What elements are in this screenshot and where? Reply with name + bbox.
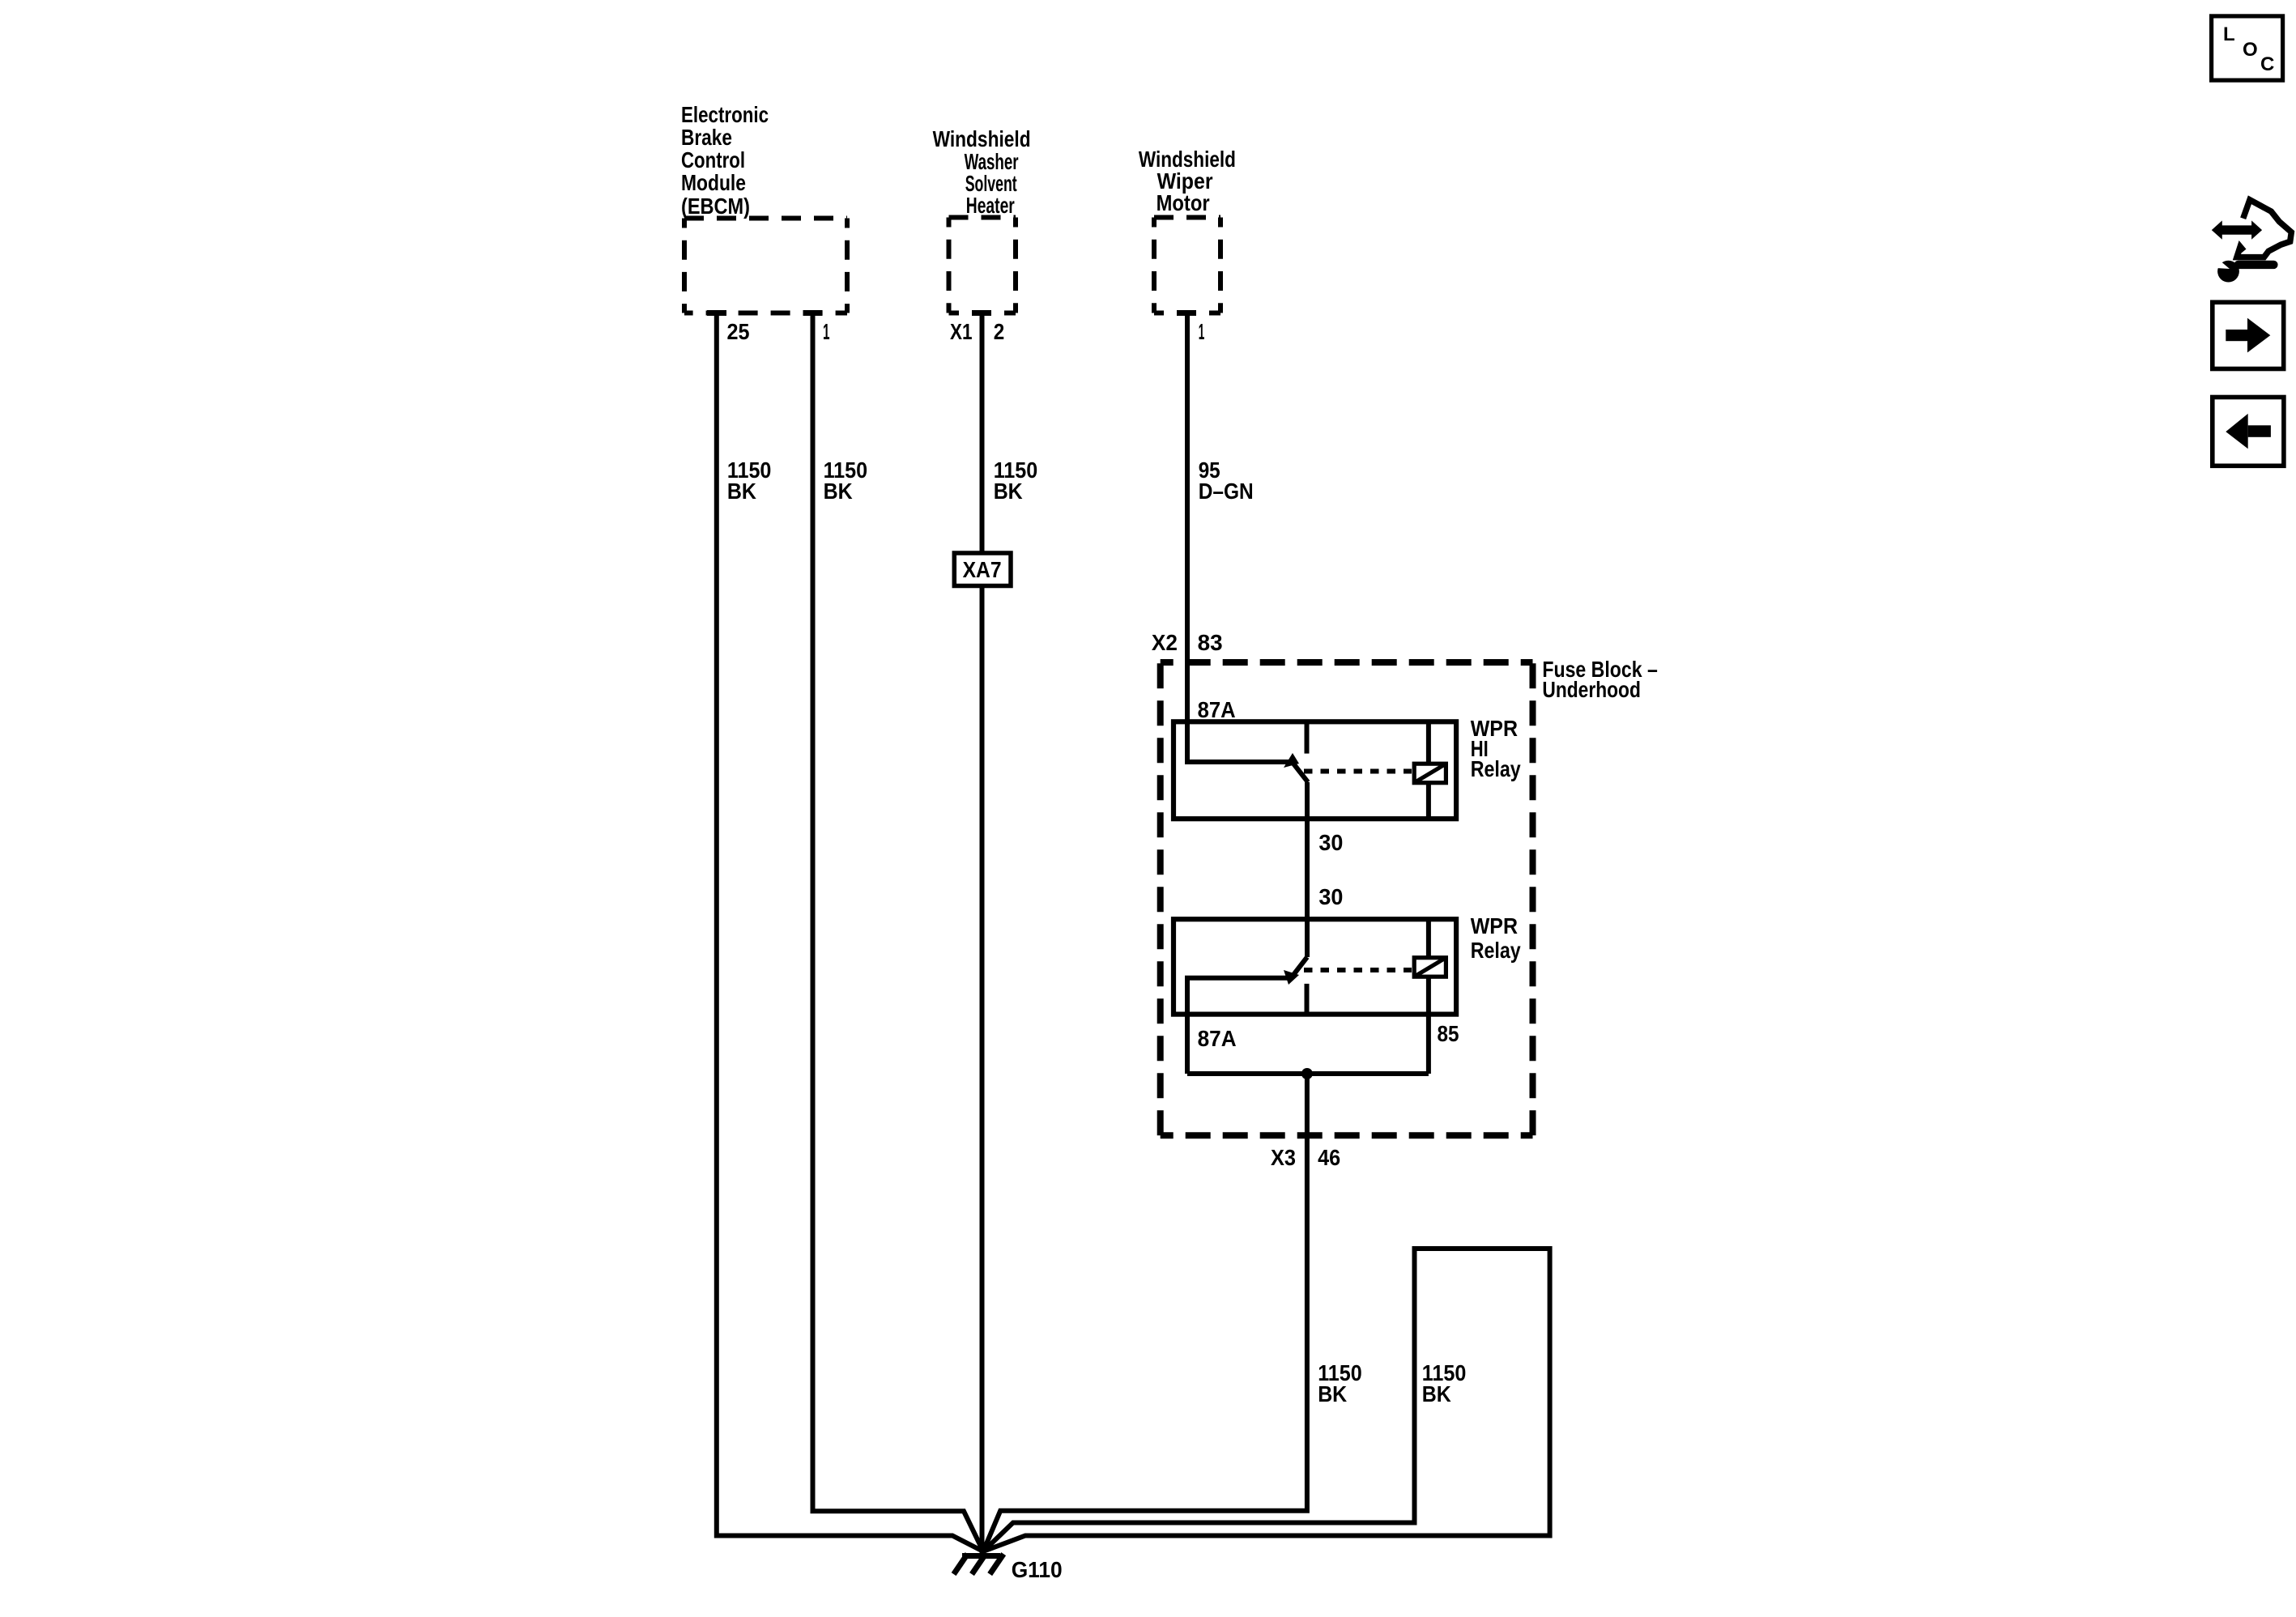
wire label 1150 BK (X3 wire) xyxy=(1318,1360,1362,1406)
svg-text:30: 30 xyxy=(1318,884,1343,909)
svg-text:87A: 87A xyxy=(1198,697,1236,722)
wire label 1150 BK (loop wire) xyxy=(1422,1360,1467,1406)
svg-text:87A: 87A xyxy=(1198,1026,1237,1051)
icon back arrow box xyxy=(2213,398,2284,466)
svg-text:BK: BK xyxy=(824,479,853,504)
wire label 1150 BK (washer wire) xyxy=(994,457,1038,504)
svg-text:Relay: Relay xyxy=(1471,938,1521,963)
icon vehicle with double arrow and wrench xyxy=(2212,200,2292,283)
wire 1150 BK ground loop branch xyxy=(983,1249,1415,1551)
connector Windshield Washer Solvent Heater label text xyxy=(933,126,1031,218)
wire 87A/85 join bus below WPR relay xyxy=(1187,1071,1429,1076)
fuse block label text xyxy=(1542,657,1657,702)
svg-text:Relay: Relay xyxy=(1471,756,1521,781)
junction node xyxy=(1301,1068,1313,1079)
relay WPR HI arm arrowhead xyxy=(1284,753,1299,768)
relay WPR HI coil diagonal xyxy=(1414,764,1446,783)
connector Windshield Wiper Motor label text xyxy=(1139,147,1236,215)
relay WPR HI common pin 30 wire down to WPR relay xyxy=(1305,782,1310,957)
terminal cap EBCM pin 1 xyxy=(803,310,823,316)
wire 1150 BK from EBCM pin 1 to G110 xyxy=(813,313,984,1552)
icon forward arrow box xyxy=(2213,302,2284,368)
svg-text:BK: BK xyxy=(1318,1381,1347,1406)
relay WPR HI label text xyxy=(1471,716,1521,781)
connector Windshield Washer Solvent Heater dashed box xyxy=(949,218,1016,313)
svg-text:Control: Control xyxy=(681,147,745,172)
ground G110 symbol xyxy=(954,1554,1004,1574)
svg-text:1: 1 xyxy=(1199,319,1205,344)
wire 95 D-GN wiper motor to relay xyxy=(1185,313,1190,763)
wire label 95 D-GN xyxy=(1199,457,1254,504)
connector Windshield Wiper Motor dashed box xyxy=(1154,218,1220,313)
wire 1150 BK washer heater to G110 xyxy=(980,313,985,1556)
svg-text:Brake: Brake xyxy=(681,125,732,150)
relay WPR HI outer box xyxy=(1174,721,1456,819)
wire 1150 BK ground loop branch right xyxy=(983,1249,1550,1551)
relay WPR actuation dashed line xyxy=(1304,968,1412,972)
wire label 1150 BK (pin 25 wire) xyxy=(727,457,772,504)
terminal cap EBCM pin 25 xyxy=(707,310,726,316)
svg-text:Motor: Motor xyxy=(1157,190,1210,215)
relay WPR outer box xyxy=(1174,919,1456,1014)
terminal cap wiper motor pin 1 xyxy=(1177,310,1196,316)
relay WPR HI NO contact stub xyxy=(1305,721,1310,753)
connector EBCM dashed box xyxy=(684,219,847,313)
wire 1150 BK from EBCM pin 25 to G110 xyxy=(717,313,983,1552)
relay WPR HI actuation dashed line xyxy=(1304,769,1412,774)
svg-text:Windshield: Windshield xyxy=(933,126,1031,151)
svg-text:46: 46 xyxy=(1318,1145,1340,1170)
svg-text:2: 2 xyxy=(994,319,1005,344)
relay WPR label text xyxy=(1471,913,1521,963)
wire 1150 BK from junction through X3-46 to G110 xyxy=(983,1074,1307,1551)
relay WPR fixed contact 87A: horizontal + vertical exit xyxy=(1187,978,1291,1074)
relay WPR coil box xyxy=(1414,958,1446,977)
svg-text:Underhood: Underhood xyxy=(1542,677,1641,702)
terminal cap washer heater pin 2 xyxy=(972,310,991,316)
relay WPR arm arrowhead xyxy=(1284,970,1299,985)
svg-text:1: 1 xyxy=(823,319,830,344)
relay WPR HI movable arm xyxy=(1293,764,1308,782)
icon LOC box xyxy=(2212,16,2283,80)
fuse block underhood dashed border xyxy=(1161,662,1533,1135)
svg-text:BK: BK xyxy=(1422,1381,1451,1406)
relay WPR movable arm xyxy=(1293,957,1307,975)
svg-text:BK: BK xyxy=(994,479,1023,504)
svg-text:X1: X1 xyxy=(950,319,973,344)
wire label 1150 BK (pin 1 wire) xyxy=(824,457,868,504)
svg-text:Module: Module xyxy=(681,170,746,195)
svg-text:C: C xyxy=(2260,53,2274,75)
relay WPR coil diagonal xyxy=(1414,958,1446,977)
svg-text:BK: BK xyxy=(727,479,756,504)
connector EBCM label text xyxy=(681,102,769,219)
svg-text:(EBCM): (EBCM) xyxy=(681,194,750,219)
svg-text:25: 25 xyxy=(727,319,750,344)
svg-text:30: 30 xyxy=(1318,830,1343,855)
relay WPR NC contact stub xyxy=(1305,984,1310,1015)
svg-text:O: O xyxy=(2243,39,2258,61)
svg-text:85: 85 xyxy=(1438,1021,1459,1046)
relay WPR HI fixed contact 87A: vertical entry + horizontal throw xyxy=(1187,721,1293,762)
inline connector XA7 box xyxy=(954,553,1011,586)
svg-text:XA7: XA7 xyxy=(963,557,1002,582)
svg-text:X2: X2 xyxy=(1152,630,1178,655)
relay WPR HI coil feed verticals xyxy=(1426,721,1431,764)
svg-text:83: 83 xyxy=(1198,630,1223,655)
relay WPR coil feed verticals: top + pin 85 exit xyxy=(1426,919,1431,957)
svg-text:X3: X3 xyxy=(1271,1145,1296,1170)
svg-text:D–GN: D–GN xyxy=(1199,479,1254,504)
svg-text:G110: G110 xyxy=(1012,1557,1063,1582)
svg-text:Heater: Heater xyxy=(966,193,1015,218)
svg-text:WPR: WPR xyxy=(1471,913,1518,938)
relay WPR common pin 30 vertical entry xyxy=(1305,919,1310,957)
relay WPR HI coil box xyxy=(1414,764,1446,783)
svg-text:Electronic: Electronic xyxy=(681,102,769,127)
svg-text:L: L xyxy=(2223,23,2235,45)
